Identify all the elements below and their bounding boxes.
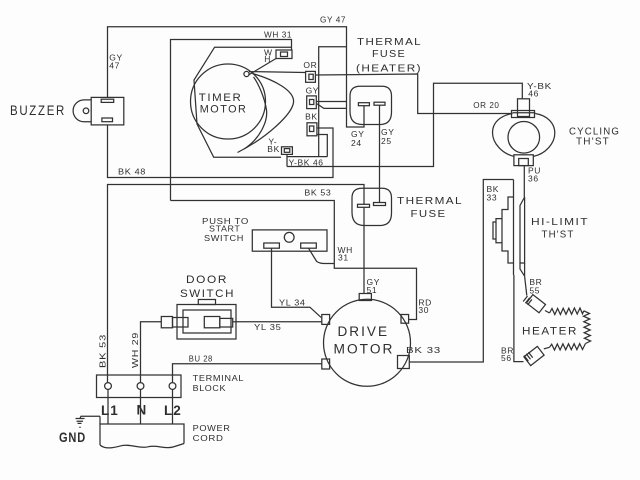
- door switch: [161, 300, 236, 340]
- connector GY (timer right): [307, 96, 317, 109]
- svg-text:TERMINAL: TERMINAL: [193, 373, 245, 383]
- hi-limit thermostat plates: [493, 219, 502, 243]
- wire L2 to power cord: [172, 390, 174, 425]
- heater element: [544, 308, 591, 350]
- svg-text:TH'ST: TH'ST: [542, 230, 575, 241]
- wire BK 53 / line B (lower box left edge and to lower thermal fuse): [108, 185, 365, 383]
- svg-text:31: 31: [338, 253, 349, 263]
- svg-text:BK: BK: [305, 112, 318, 122]
- pointer line from W-H connector to timer: [249, 59, 277, 76]
- timer pointer curl: [244, 71, 249, 76]
- drive motor upper-right terminal: [401, 315, 409, 324]
- wire GY 47 (buzzer top, along top, down to heater fuse left terminal): [108, 27, 365, 127]
- svg-text:BU 28: BU 28: [189, 354, 213, 364]
- timer motor beak outer curve: [238, 74, 294, 153]
- wire WH 29 (terminal block N up to door switch): [141, 322, 162, 383]
- wire BR 56 (hi-limit bottom to heater bottom plug): [514, 275, 524, 362]
- wire PU 36 (cycling bottom to hi-limit): [523, 166, 525, 197]
- svg-text:BLOCK: BLOCK: [193, 383, 227, 393]
- svg-text:BK 53: BK 53: [98, 334, 108, 368]
- svg-text:L1: L1: [101, 403, 119, 418]
- wire Y-BK 46 (timer to cycling t'stat): [287, 83, 522, 166]
- connector W-H (timer top): [276, 50, 292, 59]
- svg-text:SWITCH: SWITCH: [180, 288, 235, 300]
- svg-text:46: 46: [528, 88, 539, 98]
- wire GY 25 (heater fuse right terminal down to lower thermal fuse): [379, 105, 381, 202]
- svg-text:MOTOR: MOTOR: [334, 342, 395, 357]
- timer motor circle: [191, 64, 266, 139]
- svg-text:POWER: POWER: [193, 423, 231, 433]
- push to start switch: [252, 230, 327, 251]
- wire L1 to power cord: [107, 390, 109, 425]
- svg-text:GND: GND: [59, 430, 86, 445]
- wire GY 51 (lower fuse left terminal to motor top): [363, 207, 365, 293]
- svg-text:MOTOR: MOTOR: [200, 104, 248, 116]
- svg-text:Y-BK 46: Y-BK 46: [289, 158, 324, 168]
- svg-text:SWITCH: SWITCH: [204, 233, 244, 243]
- thermal fuse (lower) left terminal: [358, 204, 370, 207]
- drive motor lower-right terminal: [398, 356, 410, 369]
- svg-text:GY 47: GY 47: [320, 15, 346, 25]
- svg-text:(HEATER): (HEATER): [356, 64, 422, 75]
- svg-text:BK 48: BK 48: [118, 166, 146, 176]
- svg-text:56: 56: [501, 353, 512, 363]
- svg-text:THERMAL: THERMAL: [397, 196, 463, 207]
- svg-text:TH'ST: TH'ST: [576, 137, 610, 148]
- svg-text:BK 53: BK 53: [304, 187, 331, 197]
- ground: [76, 416, 101, 427]
- svg-text:33: 33: [487, 193, 498, 203]
- wire GY stub lower: [317, 104, 347, 109]
- wire WH 31 (timer top connector, up over left, down left side): [171, 40, 292, 201]
- wire N to power cord: [140, 390, 142, 425]
- wire OR (timer OR connector to cycling t'stat): [315, 74, 511, 114]
- wire BK 33 (motor right to hi-limit top): [409, 180, 513, 363]
- svg-text:36: 36: [528, 174, 539, 184]
- wire WH 31 lower (line C, down to PTS and across to motor): [171, 201, 417, 320]
- svg-text:OR 20: OR 20: [473, 100, 499, 110]
- svg-text:BK: BK: [267, 144, 280, 154]
- wire WH 31 PTS right terminal stub: [309, 248, 335, 263]
- svg-text:55: 55: [529, 286, 540, 296]
- buzzer: [73, 97, 124, 125]
- svg-text:BUZZER: BUZZER: [10, 103, 66, 118]
- connector OR (timer right): [306, 71, 316, 82]
- wire BK connector lower branch: [317, 135, 327, 157]
- svg-text:YL 35: YL 35: [254, 322, 282, 332]
- svg-text:HI-LIMIT: HI-LIMIT: [531, 217, 589, 228]
- timer motor beak inner curve: [244, 77, 267, 149]
- hi-limit thermostat left contact: [502, 180, 514, 276]
- svg-text:25: 25: [381, 136, 392, 146]
- svg-text:BK 33: BK 33: [406, 345, 441, 355]
- thermal fuse (lower) right terminal: [374, 203, 386, 206]
- svg-text:24: 24: [351, 138, 362, 148]
- terminal block: [97, 375, 182, 398]
- svg-text:DRIVE: DRIVE: [338, 324, 390, 339]
- timer box right edge: [319, 47, 347, 157]
- timer motor outline polygon: [194, 47, 292, 157]
- svg-text:DOOR: DOOR: [186, 274, 228, 286]
- svg-text:THERMAL: THERMAL: [357, 37, 422, 48]
- drive motor top terminal: [359, 294, 371, 301]
- wire GY stub (timer GY connector to GY47 wire): [316, 101, 346, 103]
- svg-text:N: N: [137, 403, 148, 418]
- svg-text:TIMER: TIMER: [199, 92, 243, 104]
- svg-text:START: START: [209, 224, 241, 234]
- thermal fuse (heater) right terminal: [374, 102, 385, 105]
- wire BR 55 (hi-limit to heater top plug): [525, 276, 527, 295]
- svg-text:FUSE: FUSE: [411, 209, 447, 220]
- wire YL 35 (door switch to motor): [233, 321, 322, 323]
- wire Y-BK junction line: [287, 154, 327, 166]
- wire BU 28 (terminal block L2 to motor lower-left): [173, 364, 322, 383]
- hi-limit thermostat right contact: [520, 197, 525, 263]
- drive motor lower-left terminal: [322, 359, 330, 369]
- wire YL 34 (PTS left terminal to drive motor): [272, 248, 322, 317]
- heater plug BR 55: [523, 295, 545, 313]
- hi-limit right contact lower jog: [520, 263, 525, 276]
- cycling thermostat: [493, 99, 555, 166]
- svg-text:OR: OR: [303, 60, 317, 70]
- svg-text:FUSE: FUSE: [372, 49, 406, 60]
- connector Y-BK (timer bottom): [282, 147, 293, 155]
- wire BK 48 (buzzer bottom to timer BK connector): [108, 125, 334, 178]
- power cord: [100, 424, 184, 445]
- connector BK (timer right): [307, 123, 317, 136]
- thermal fuse (lower) body: [352, 188, 392, 225]
- svg-text:30: 30: [418, 305, 429, 315]
- svg-text:CORD: CORD: [193, 433, 224, 443]
- svg-text:HEATER: HEATER: [522, 326, 578, 338]
- svg-text:YL 34: YL 34: [279, 297, 306, 307]
- thermal fuse (heater) left terminal: [358, 103, 369, 106]
- drive motor circle: [324, 299, 411, 386]
- svg-text:WH 31: WH 31: [264, 30, 292, 40]
- pointer line from OR connector to timer: [249, 71, 306, 74]
- heater plug BR 56: [524, 346, 544, 365]
- drive motor upper-left terminal: [322, 315, 330, 325]
- svg-text:GY: GY: [306, 85, 319, 95]
- svg-text:47: 47: [109, 60, 120, 70]
- svg-text:WH 29: WH 29: [130, 332, 140, 368]
- thermal fuse (heater) body: [350, 86, 392, 124]
